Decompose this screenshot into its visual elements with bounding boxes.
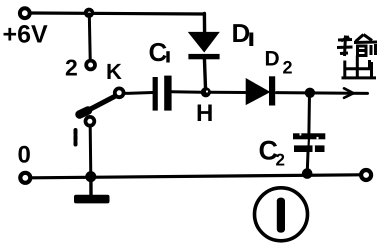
wire C2 down to bottom rail [306, 152, 310, 174]
svg-text:2: 2 [65, 55, 78, 81]
diode D2 [247, 80, 269, 104]
label chu (output char bottom) [342, 56, 377, 78]
svg-text:K: K [106, 59, 122, 84]
svg-text:D: D [265, 48, 280, 71]
contact 2 (switch upper contact) [86, 61, 95, 70]
junction top rail [84, 8, 94, 18]
circled figure number 1 [255, 188, 308, 241]
wire top rail [31, 13, 205, 14]
wire top rail corner down to D1 [203, 14, 207, 34]
switch pivot contact [115, 88, 124, 97]
wire junction down to C2 [307, 93, 311, 133]
junction ground [85, 171, 96, 182]
output arrowhead [344, 88, 354, 98]
svg-text:2: 2 [276, 151, 285, 170]
wire bottom rail [32, 175, 360, 178]
capacitor C1 [153, 77, 158, 111]
junction C2 bottom [302, 168, 313, 179]
svg-text:0: 0 [18, 142, 31, 169]
label 1 [74, 130, 78, 145]
svg-text:2: 2 [283, 58, 293, 78]
wire C1 to node H [172, 90, 202, 94]
terminal output bottom right [361, 170, 371, 180]
switch arm K [81, 97, 115, 115]
wire junction to contact 2 [88, 14, 92, 59]
contact 1 (switch lower contact) [86, 117, 95, 126]
label shu (output char top) [337, 35, 377, 57]
svg-text:H: H [196, 100, 213, 127]
terminal +6V input [20, 8, 30, 18]
diode D1 [189, 33, 218, 52]
junction output node [305, 88, 315, 98]
capacitor C2 [293, 133, 325, 139]
terminal 0 input [20, 173, 30, 183]
ground [89, 177, 92, 195]
wire contact1 down to bottom rail [89, 126, 93, 176]
wire switch pivot to C1 [125, 91, 153, 95]
svg-text:+6V: +6V [3, 21, 49, 49]
svg-text:D: D [232, 18, 251, 48]
node H junction [201, 87, 211, 97]
wire D2 to output arrow [276, 91, 367, 95]
wire H to D2 [210, 91, 245, 94]
svg-text:C: C [149, 37, 168, 67]
